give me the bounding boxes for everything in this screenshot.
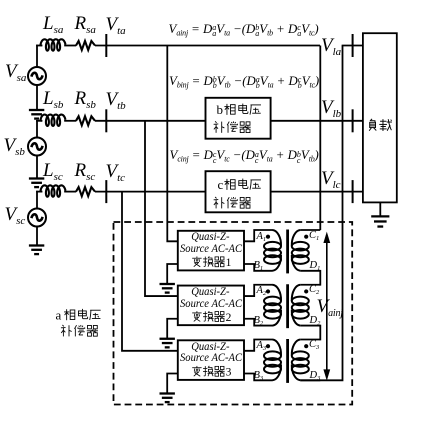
label terminal A3: [257, 341, 267, 352]
converter U2 box Quasi-Z-Source AC-AC: [178, 286, 244, 326]
node V_tb tick: [105, 109, 107, 132]
load box: [363, 33, 397, 202]
label terminal B3: [254, 371, 264, 382]
wire converter U2 lower-left to ground: [167, 319, 178, 338]
wire source column down: [36, 45, 38, 67]
wire to node V_ta and beyond: [95, 45, 320, 47]
transformer T3 primary outline with terminals A3 B3: [244, 340, 273, 351]
wire to node V_tc and beyond: [95, 191, 206, 193]
transformer T3 polarity dot primary: [266, 344, 270, 348]
label converter U2 CJK 变换器2: [192, 311, 231, 324]
wire: [36, 227, 38, 246]
ground load: [371, 216, 389, 226]
source V_sc: [28, 209, 46, 227]
transformer T2 polarity dot primary: [266, 289, 270, 293]
transformer T1 secondary winding: [292, 230, 309, 271]
wire series link D2 to C3: [319, 325, 321, 341]
transformer T3 primary winding: [264, 340, 281, 381]
label terminal C1: [309, 231, 319, 242]
label R_sc: [75, 161, 96, 180]
wire phase c horizontal from source: [36, 191, 42, 193]
wire source column down: [36, 120, 38, 137]
V_ainj measurement double arrow: [323, 232, 330, 381]
label L_sb: [43, 89, 63, 108]
inductor L_sc: [40, 185, 65, 196]
label converter U1 CJK 变换器1: [192, 256, 231, 269]
label b-phase compensator text: [214, 102, 261, 133]
wire to node V_tb and beyond: [95, 120, 206, 122]
label V_sa: [5, 62, 26, 81]
label V_tb: [106, 90, 126, 109]
label terminal C3: [309, 340, 319, 351]
label terminal B2: [254, 316, 264, 327]
ground converter U2: [160, 339, 175, 348]
wire V_la segment to load: [342, 45, 363, 47]
transformer T1 primary outline with terminals A1 B1: [244, 230, 273, 241]
label L_sa: [43, 14, 63, 33]
compensator box phase c: [206, 171, 271, 212]
transformer T1 core: [286, 230, 289, 274]
wire phase a horizontal from source: [36, 45, 42, 47]
label V_lb: [321, 98, 341, 117]
wire tap phase b down to converter 2: [145, 121, 178, 296]
source V_sb: [28, 138, 46, 156]
ground source b: [29, 179, 44, 188]
label converter U2 text: [180, 287, 241, 310]
transformer T2 secondary winding: [292, 285, 309, 326]
wire converter U1 lower-left to ground: [167, 264, 178, 283]
node V_tc tick: [105, 180, 107, 203]
wire tap phase a down to converter 1: [167, 46, 178, 242]
transformer T2 primary winding: [264, 285, 281, 326]
svg-text:2: 2: [226, 312, 232, 324]
label load text 负载: [369, 119, 392, 131]
transformer T2 core: [286, 284, 289, 328]
ground converter U3: [160, 394, 175, 403]
wire phase b horizontal from source: [36, 120, 42, 122]
wire phase c compensator to load: [271, 191, 363, 193]
label terminal D3: [310, 371, 321, 382]
wire series feed from phase a corner down to C1: [319, 46, 321, 231]
wire load to ground: [379, 202, 381, 215]
resistor R_sc: [76, 187, 95, 196]
wire converter U3 lower-left to ground: [167, 374, 178, 393]
ground source a: [29, 110, 44, 119]
label V_sc: [5, 205, 26, 224]
wire series link D1 to C2: [319, 270, 321, 286]
label R_sa: [75, 14, 96, 33]
transformer T1 secondary outline with terminals C1 D1: [300, 229, 320, 231]
label a-phase compensator text: [56, 308, 101, 337]
transformer T3 polarity dot secondary: [304, 344, 308, 348]
label R_sb: [75, 89, 96, 108]
wire: [64, 120, 76, 122]
resistor R_sb: [76, 116, 95, 125]
svg-text:3: 3: [226, 367, 232, 379]
ground source c: [29, 246, 44, 255]
label V_ainj: [317, 297, 343, 316]
label V_tc: [106, 162, 126, 181]
label terminal A2: [257, 286, 267, 297]
label c-phase compensator text: [214, 177, 261, 208]
transformer T3 secondary outline with terminals C3 D3: [300, 339, 320, 341]
node V_ta tick: [105, 34, 107, 57]
transformer T3 secondary winding: [292, 340, 309, 381]
wire phase b compensator to load: [271, 120, 363, 122]
wire: [36, 156, 38, 179]
equation V_cinj: [170, 149, 319, 162]
inductor L_sb: [40, 115, 65, 126]
wire return from D3 up to V_la: [300, 46, 342, 381]
compensator box phase b: [206, 98, 271, 139]
source V_sa: [28, 67, 46, 85]
node V_lc tick: [352, 180, 354, 203]
label terminal D2: [310, 316, 321, 327]
node V_la tick: [352, 34, 354, 57]
converter U1 box Quasi-Z-Source AC-AC: [178, 231, 244, 271]
transformer T2 primary outline with terminals A2 B2: [244, 285, 273, 296]
wire tap phase c down to converter 3: [122, 192, 178, 351]
label terminal C2: [309, 285, 319, 296]
transformer T1 polarity dot primary: [266, 235, 270, 239]
resistor R_sa: [76, 41, 95, 50]
transformer T2 secondary outline with terminals C2 D2: [300, 284, 320, 286]
wire: [36, 85, 38, 110]
label V_lc: [321, 169, 341, 188]
label converter U3 CJK 变换器3: [192, 366, 231, 379]
svg-text:1: 1: [226, 257, 232, 269]
inductor L_sa: [40, 39, 65, 50]
wire: [64, 45, 76, 47]
transformer T3 core: [286, 339, 289, 383]
label V_sb: [4, 136, 25, 155]
label converter U1 text: [180, 232, 241, 255]
equation V_ainj: [169, 23, 319, 36]
label V_la: [321, 36, 341, 55]
wire: [64, 191, 76, 193]
dashed box a-phase compensator boundary: [114, 222, 353, 405]
node V_lb tick: [352, 109, 354, 132]
transformer T2 polarity dot secondary: [304, 289, 308, 293]
transformer T1 primary winding: [264, 230, 281, 271]
label L_sc: [43, 161, 63, 180]
converter U3 box Quasi-Z-Source AC-AC: [178, 340, 244, 380]
label terminal A1: [257, 232, 267, 243]
label terminal B1: [254, 261, 264, 272]
wire source column down: [36, 191, 38, 209]
label terminal D1: [310, 261, 321, 272]
ground converter U1: [160, 284, 175, 293]
equation V_binj: [169, 75, 319, 88]
transformer T1 polarity dot secondary: [304, 235, 308, 239]
label V_ta: [106, 15, 126, 34]
label converter U3 text: [180, 342, 241, 365]
